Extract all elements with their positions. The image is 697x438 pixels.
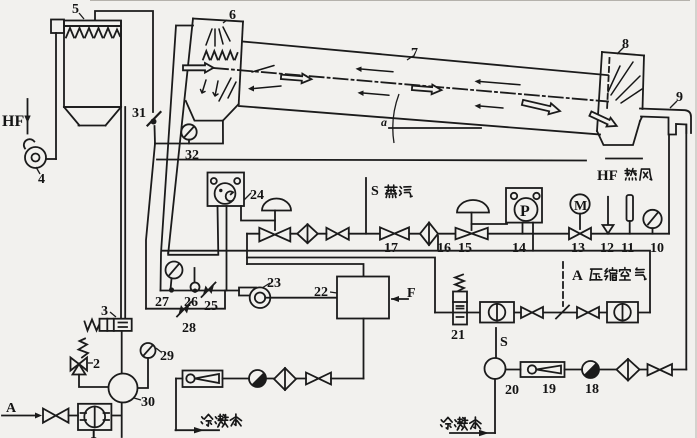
wire valve 3 to mixer 30 (121, 331, 123, 374)
svg-text:5: 5 (72, 2, 79, 17)
air flow small arrow s4 (358, 91, 390, 97)
label 8 (617, 37, 629, 54)
label A compressed air (572, 268, 646, 285)
separator 20 (485, 358, 506, 379)
enclosure line under drum (157, 160, 586, 161)
valve 18v (648, 364, 673, 376)
motor valve 13 (569, 194, 591, 239)
rotary dryer drum 7 bottom edge (239, 106, 600, 135)
condensate label L (cold condensate water) (201, 414, 241, 427)
svg-text:2: 2 (93, 357, 100, 372)
line 2 to air regulator 21 (247, 258, 435, 313)
svg-text:13: 13 (571, 241, 585, 256)
label 29 (156, 348, 174, 364)
svg-text:30: 30 (141, 395, 155, 410)
wire up to pipe 9 (685, 125, 687, 370)
label 24 (244, 188, 264, 203)
chamber 6 zigzag row (203, 51, 238, 60)
line 3 to mixer 22 (247, 264, 364, 277)
pressure gauge 10 (643, 210, 661, 234)
svg-text:S: S (500, 335, 508, 350)
label 30 (134, 395, 155, 410)
valve 28 (177, 302, 191, 317)
rotary dryer drum 7 top edge (243, 42, 608, 76)
half-dark indicator L (249, 370, 266, 387)
wires on line 20-18 (506, 369, 687, 371)
svg-text:23: 23 (267, 276, 281, 291)
scan edge artifacts (90, 0, 690, 2)
svg-text:6: 6 (229, 8, 236, 23)
svg-text:19: 19 (542, 382, 556, 397)
svg-text:20: 20 (505, 383, 519, 398)
svg-text:16: 16 (437, 241, 451, 256)
wire valve 15 actuator to controller 14 (472, 223, 508, 224)
A feed inlet arrow (2, 401, 42, 419)
air flow small arrow s1 (252, 66, 274, 73)
svg-text:10: 10 (650, 241, 664, 256)
label 5 (72, 2, 84, 19)
svg-text:17: 17 (384, 241, 398, 256)
wire mixer 22 bottom to trap line (363, 319, 365, 379)
rotameter L (183, 371, 223, 388)
steam control valve body (259, 228, 290, 242)
label 3 (101, 304, 116, 319)
pump 1 (78, 404, 111, 430)
mixer 30 (109, 374, 138, 403)
svg-text:8: 8 (622, 37, 629, 52)
air flow small arrow s5 (475, 79, 521, 85)
label 2 (88, 357, 100, 372)
long impulse line 1 (162, 251, 651, 313)
filter 16 (420, 223, 438, 246)
left pipe bundle: line down to staircase (146, 144, 155, 309)
svg-text:A: A (6, 401, 17, 416)
HF inlet arrow line (24, 99, 30, 134)
chamber 6 falling material marks (201, 78, 237, 101)
indicator 18 (582, 361, 599, 378)
condensate drain from separator 20 (494, 379, 496, 433)
duct line left of chamber 6 (161, 26, 194, 291)
svg-text:HF: HF (2, 113, 24, 130)
wire valve 31 to box 32 (154, 126, 157, 144)
air valve c2v (577, 307, 599, 318)
compressed air line (435, 312, 650, 314)
svg-text:S: S (371, 184, 379, 199)
svg-text:F: F (407, 286, 416, 301)
svg-text:27: 27 (155, 295, 169, 310)
fan 4 (24, 139, 56, 168)
svg-text:14: 14 (512, 241, 526, 256)
mixer 22 box (337, 277, 389, 319)
svg-text:9: 9 (676, 90, 683, 105)
hollow arrow A1 on axis (281, 72, 312, 84)
hollow arrow A3 on axis (521, 97, 561, 117)
damper 32 (181, 124, 196, 143)
steam tap vertical (246, 234, 248, 264)
S steam inlet line (365, 178, 367, 234)
svg-text:29: 29 (160, 349, 174, 364)
air regulator 21 (453, 275, 467, 325)
control valve 15 dome (457, 200, 489, 213)
chamber 6 hopper (186, 101, 239, 121)
svg-text:22: 22 (314, 285, 328, 300)
air flow small arrow s2 (248, 86, 281, 92)
air flow small arrow s6 (475, 104, 504, 110)
svg-text:1: 1 (90, 427, 97, 438)
wire baghouse top to valve 31 pipe (95, 11, 153, 112)
filter L (274, 368, 296, 390)
control valve 15 body (456, 228, 488, 240)
drum axis dash-dot line (214, 68, 608, 102)
angle alpha reference line (389, 127, 481, 129)
solenoid valve 3 (85, 319, 132, 331)
wires pump 1 to mixer 30 (69, 403, 122, 438)
hollow arrow in hood 8 (588, 109, 618, 130)
svg-text:12: 12 (600, 241, 614, 256)
impulse line from 16 down (437, 236, 439, 251)
sensor 26 (191, 268, 200, 293)
svg-text:P: P (520, 203, 530, 220)
baghouse 5 hopper (64, 107, 121, 126)
condensate label R (cold condensate water) (441, 417, 481, 430)
rotameter 19 (521, 362, 565, 377)
relief valve 2 (71, 339, 109, 388)
svg-text:A: A (572, 268, 583, 284)
svg-text:25: 25 (204, 299, 218, 314)
svg-text:a: a (381, 115, 387, 129)
air valve c1v (521, 307, 543, 318)
label 22 (314, 285, 337, 300)
S stub to separator 20 (496, 328, 508, 357)
svg-text:15: 15 (458, 241, 472, 256)
svg-text:28: 28 (182, 321, 196, 336)
chamber 6 spray marks (206, 27, 230, 46)
instrument line to blower (161, 290, 240, 292)
valve 31 (148, 112, 161, 126)
label 7 (407, 46, 418, 61)
strainer diamond B (297, 224, 318, 243)
wire recorder 24 to control valve actuator (241, 206, 275, 221)
wire blower 23 to mixer 22 (270, 297, 337, 299)
svg-text:4: 4 (38, 172, 45, 187)
steam control valve stem (274, 211, 276, 231)
drain funnel 12 (603, 197, 614, 234)
steam pipe (main line) (247, 233, 669, 235)
svg-text:11: 11 (621, 241, 634, 256)
wire steam line right end up to pipe 9 (668, 135, 670, 234)
chamber 6 outline (168, 19, 243, 254)
temperature recorder 24 box (208, 173, 245, 207)
baghouse 5 bag zigzag row (66, 28, 120, 38)
chute below chamber 6 into box 32 (155, 121, 223, 144)
inlet valve (43, 409, 69, 423)
pressure controller 14 box (506, 188, 542, 223)
hot air pipe 9 (640, 109, 691, 135)
label 23 (262, 276, 281, 291)
wire fan 4 to baghouse top box (55, 33, 57, 159)
HF hot air underline (606, 158, 642, 160)
trap line wires (176, 378, 364, 380)
blower 23 (239, 287, 270, 308)
svg-text:M: M (574, 199, 587, 214)
valve C (326, 228, 348, 240)
staircase line with valve 28 (146, 291, 225, 309)
svg-text:HF: HF (597, 168, 618, 184)
baghouse 5 top small box (51, 20, 64, 34)
label 4 (36, 167, 45, 187)
control valve 15 stem (471, 213, 473, 231)
controller 14 stems (522, 223, 524, 234)
A compressed air inlet (dashed) (556, 262, 569, 319)
hood 8 spray marks (608, 62, 642, 103)
svg-text:31: 31 (132, 106, 146, 121)
thermometer 11 (627, 195, 634, 234)
condensate drain L (175, 379, 177, 431)
svg-text:7: 7 (411, 46, 418, 61)
F feed arrow (391, 286, 416, 302)
discharge hood 8 (597, 52, 644, 145)
filter 18f (617, 359, 640, 381)
air flow small arrow s3 (356, 67, 394, 73)
recorder 24 capillary stems (168, 206, 218, 255)
svg-text:24: 24 (250, 188, 264, 203)
angle alpha arc (393, 94, 399, 143)
label 9 (670, 90, 683, 108)
air filter-regulator c1 (480, 302, 514, 323)
label HF hot air (597, 168, 652, 184)
valve 17 (380, 227, 409, 239)
svg-text:3: 3 (101, 304, 108, 319)
label 6 (223, 8, 236, 23)
svg-text:18: 18 (585, 382, 599, 397)
indicator 29 (138, 343, 156, 388)
wire baghouse right side down to valve 3 (121, 21, 125, 318)
chamber 6 feed arrow (hollow) (183, 63, 214, 73)
air filter-regulator c2 (607, 302, 638, 323)
svg-text:32: 32 (185, 148, 199, 163)
steam control valve (unnumbered) dome (262, 199, 291, 211)
hollow arrow A2 on axis (412, 83, 442, 95)
svg-text:21: 21 (451, 328, 465, 343)
valve 25 (202, 283, 216, 298)
baghouse filter 5 body (51, 20, 121, 126)
valve L (306, 373, 331, 385)
pressure gauge 27 (166, 262, 183, 293)
